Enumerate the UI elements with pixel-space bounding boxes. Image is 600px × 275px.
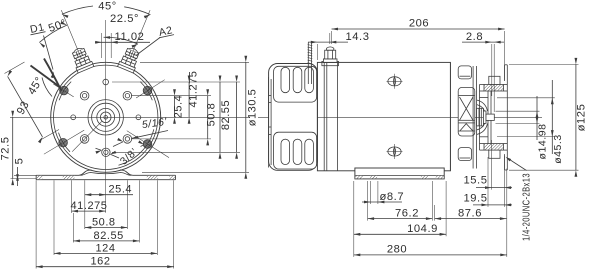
side base hatch [355,176,363,179]
extension line [105,163,107,213]
arrows 11.02 [95,41,102,44]
ext dia8.7 [370,181,372,204]
terminal stud A2 (right) [118,46,142,73]
dim 280 [354,254,507,256]
extension line [138,180,140,242]
bolt circle arc upper-left [59,82,71,101]
leader 3/8 b [110,154,119,158]
wire 2 [44,59,62,92]
body joint lines [323,62,325,170]
stud axis extension left [61,10,81,59]
ext dia125 [509,63,579,65]
dim arc 45deg [62,6,93,14]
tab root bottom [480,143,485,145]
vent slot top 1 [281,67,290,92]
dim 93 line [8,76,43,136]
front view base foot right [120,170,133,175]
end cap left band [268,77,270,168]
extension line [173,180,175,268]
front view inner flange circle [53,65,157,169]
lifting symbol bottom [388,147,401,156]
arrows 93 [8,70,13,76]
ext line base bottom left [11,178,37,180]
horizontal extension line [112,151,240,153]
fan top vent [458,66,471,79]
vent slot top 2 [293,67,302,92]
dim 82.55 bottom [73,240,139,242]
dim arc 50deg [39,25,67,42]
svg-text:ø125: ø125 [576,104,588,132]
bracket ring 1 [472,66,474,169]
vent slot top 3 [305,67,314,92]
bolt circle arc lower-right [119,129,154,165]
dim 104.9 [354,233,446,235]
leader 5/16 a [132,131,168,139]
upper-right bolt hole [125,94,129,98]
dim 41.275 bottom [72,210,106,212]
side base hatch [436,176,444,179]
dim 14.3 [308,41,348,43]
svg-text:ø45.3: ø45.3 [552,134,564,164]
svg-text:162: 162 [90,256,110,268]
horizontal centerline front view [10,116,250,118]
base hatch zone [37,176,43,179]
leader 5/16 b [113,142,123,147]
dim arc 22.5deg [104,37,138,44]
fan bottom vent [458,148,471,161]
dim 25.4 vertical [174,96,176,118]
arc 45deg wire [42,78,52,97]
dim dia8.7 [362,201,402,203]
radial centerline upper-right [136,80,165,98]
arrows 50deg arc [39,42,45,47]
svg-text:14.3: 14.3 [346,31,370,43]
dim 15.5 [476,187,512,189]
bolt circle arc upper-right [140,82,152,101]
dim dia125 [575,64,577,170]
shaft end [486,114,494,120]
arrows 72.5 [11,111,14,118]
dim 72.5 [12,117,14,178]
front view outer circle [51,62,161,172]
hub circle 3 [97,108,115,126]
dim dia45.3 [551,80,553,154]
horizontal extension line [131,138,211,140]
ext 280 right [506,169,508,257]
vent slot bottom 1 [281,139,290,164]
svg-text:2.8: 2.8 [466,31,483,43]
ext 14.3 [316,44,318,60]
dim 50.8 vertical [207,96,209,139]
dim 19.5 [473,204,512,206]
ext dia14.98 [496,110,540,112]
ext 2.8 [491,44,493,96]
svg-text:50.8: 50.8 [206,103,218,127]
front view base foot left [79,170,92,175]
arrows 5 [16,175,19,181]
arrows 45deg arc [62,14,69,18]
bracket ring 3 [479,85,481,151]
dim 87.6 [435,218,507,220]
bearing boss [477,108,484,126]
svg-text:50.8: 50.8 [92,217,116,229]
leader 3/8 c [141,145,144,147]
svg-text:124: 124 [95,242,115,254]
ext 206 left [331,31,333,44]
ext dia45.3 [497,97,555,99]
hub circle 4 [100,112,111,123]
mount tab bottom [484,144,504,151]
vent panel bottom [274,132,317,169]
front view base plate [36,175,175,179]
leader D1 [44,36,54,70]
svg-text:82.55: 82.55 [220,100,232,130]
svg-text:ø8.7: ø8.7 [380,191,405,203]
fan rotor [458,88,475,137]
dim dia14.98 [536,96,538,140]
bolt circle arc lower-left [59,133,71,152]
pilot boss lines [487,91,489,144]
horizontal extension line [142,171,249,173]
right bolt hole [136,115,141,120]
horizontal extension line [140,61,249,63]
ext 206 right [504,31,506,80]
dim 76.2 [368,218,433,220]
dim 82.55 vertical [219,82,221,152]
fan housing right edge [449,62,451,170]
shaft hole [104,116,108,120]
side base plate [355,168,444,179]
upper-left bolt hole [82,94,86,98]
extension line [72,213,74,243]
extension line [71,180,73,213]
hub circle 2 [92,103,120,131]
dim 124 bottom [54,252,157,254]
arrows 22.5deg arc [104,36,111,39]
radial centerline lower-left [44,130,84,154]
lower-left bolt hole [82,137,86,141]
mount tab top [484,85,504,92]
svg-text:1/4-20UNC-2Bx13: 1/4-20UNC-2Bx13 [521,173,533,241]
dim 93 ext ticks [5,62,25,74]
leader 3/8 a [96,148,102,150]
lower-right bolt hole [125,137,129,141]
hub circle 1 [88,100,123,135]
side base mid line [355,174,444,176]
svg-text:82.55: 82.55 [94,230,124,242]
vertical centerline front view [105,20,107,163]
extension line [84,180,86,229]
horizontal extension line [131,95,211,97]
svg-text:76.2: 76.2 [395,207,419,219]
extension line [156,180,158,255]
side base hatch [370,176,377,179]
vent slot bottom 2 [293,139,302,164]
extension line [35,180,37,268]
svg-text:72.5: 72.5 [0,137,12,161]
svg-text:104.9: 104.9 [407,223,438,235]
dim 50.8 bottom [85,227,128,229]
dim 41.275 vertical [188,82,190,117]
diagonal centerline lower-left [72,121,102,152]
vent slot bottom 3 [305,139,314,164]
top bolt hole [103,79,109,85]
shaft washer [483,111,486,123]
leader thread callout [508,159,527,171]
leader A2 [137,38,161,56]
dim 162 bottom [36,266,174,268]
front view base inner curve [81,173,131,176]
tab root top [480,84,485,86]
radial centerline lower-right [127,131,169,158]
base hatch zone [147,176,158,179]
mount tab boss top [489,76,500,84]
body outline [317,62,450,170]
svg-text:ø130.5: ø130.5 [247,89,259,127]
bracket ring 2 [476,66,478,169]
side base hatch [421,176,428,179]
dim 25.4 bottom [85,194,106,196]
left bolt hole [71,115,76,120]
svg-text:22.5°: 22.5° [110,13,139,25]
svg-text:87.6: 87.6 [458,207,482,219]
svg-text:206: 206 [409,18,429,30]
lifting symbol top [388,77,401,86]
side view centerline [258,116,542,118]
mount tab boss bottom [489,150,500,158]
svg-text:15.5: 15.5 [464,175,488,187]
vent panel top [274,66,317,102]
svg-text:25.4: 25.4 [108,184,132,196]
ext 104.9 [353,181,355,257]
dim 2.8 [462,41,504,43]
svg-text:5: 5 [14,158,26,165]
svg-text:19.5: 19.5 [464,193,488,205]
side terminal stud [322,47,339,66]
ext 19.5 [487,157,489,207]
base hatch zone [169,176,175,179]
horn bottom [477,124,488,135]
ext 76.2 [367,181,369,221]
stud axis extension right [130,10,150,59]
dim 11.02 line [95,41,150,43]
svg-text:25.4: 25.4 [173,95,185,119]
far terminal stud rod [307,42,309,84]
base hatch zone [63,176,75,179]
horizontal extension line [112,81,240,83]
ext 15.5 [491,140,493,190]
radial centerline upper-left [53,84,73,97]
svg-text:45°: 45° [98,1,117,13]
extension line [53,180,55,255]
horn top [477,100,488,111]
wire 1 [31,66,61,88]
dim dia130.5 vertical [245,62,247,172]
extension line [126,180,128,229]
end cap outline [269,64,318,171]
svg-text:41.275: 41.275 [71,200,108,212]
bottom bolt hole [104,150,108,154]
flange outer face [506,65,508,170]
dim 5 ext [14,174,36,176]
svg-text:280: 280 [387,243,407,255]
svg-text:ø14.98: ø14.98 [537,124,549,160]
dim 206 [332,28,505,30]
svg-text:11.02: 11.02 [115,31,145,43]
dim 5 [17,167,19,186]
terminal stud D1 (left) [69,46,93,73]
svg-text:41.275: 41.275 [188,71,200,108]
